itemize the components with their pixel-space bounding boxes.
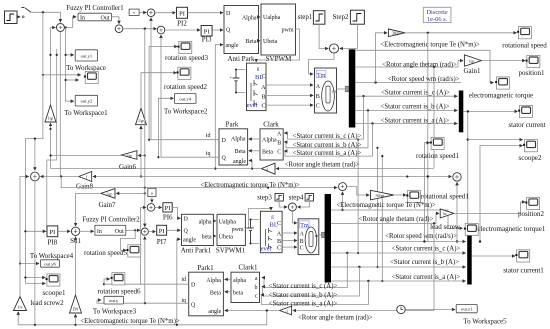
svg-text:Anti Park: Anti Park [227, 55, 255, 63]
wire wm gain to rotational speed scope [405, 32, 517, 34]
gain triangle up DN [70, 295, 82, 313]
scope rotation speed3 [165, 41, 208, 62]
svg-text:D: D [222, 138, 227, 144]
svg-text:rotational speed: rotational speed [502, 42, 547, 50]
svg-text:out.y6: out.y6 [44, 262, 56, 267]
signal is_c2 wire to mux2 [331, 252, 466, 254]
wire from switch trunk to scope input 1 [43, 74, 81, 76]
svg-text:+: + [244, 225, 247, 230]
wire clock to out.z1 [405, 309, 455, 311]
wire cross from top into sum2b top [144, 29, 146, 227]
Step2 block [333, 10, 365, 24]
scope electromagnetic torque [469, 77, 533, 100]
sum Su1 [70, 227, 81, 245]
wire is_a2 to Clark1 c [261, 281, 368, 305]
svg-text:<Stator current is_c (A)>: <Stator current is_c (A)> [269, 283, 338, 290]
svg-text:<Stator current is_c (A)>: <Stator current is_c (A)> [293, 133, 362, 140]
wire right trunk x427.8 down [427, 33, 429, 242]
wire Park id out, up to sumA [151, 18, 219, 140]
wire sumC to sumB [123, 28, 157, 30]
svg-text:PI: PI [159, 228, 165, 235]
svg-text:alpha: alpha [199, 219, 212, 225]
wire motor2 m to connector [319, 234, 322, 236]
svg-text:a: a [255, 276, 258, 282]
svg-text:Beta: Beta [235, 149, 246, 155]
SVPWM1 subsystem [216, 214, 246, 254]
svg-text:rotation speed3: rotation speed3 [165, 54, 208, 62]
wire switch to junction to sum1 [31, 12, 60, 22]
gain lead screw [430, 209, 461, 231]
svg-text:D: D [184, 217, 189, 223]
svg-text:1/w: 1/w [17, 305, 23, 309]
bus connector pad 1 [345, 86, 351, 92]
wire sum2b to PI7 [148, 231, 155, 233]
svg-text:PI2: PI2 [177, 20, 187, 28]
wire sumB to PI3 [165, 29, 200, 31]
To Workspace5 out.z1 [456, 305, 507, 326]
wire PI8 to Su1 [58, 230, 70, 232]
wire into out.y6 [20, 263, 39, 265]
wire Gain6 input from trunk [138, 155, 145, 157]
scope rotation speed6 [98, 273, 141, 296]
step source block [5, 11, 18, 24]
SVPWM subsystem [261, 4, 296, 63]
signal is_a1 wire to mux [355, 123, 457, 125]
inverter 1 (2-level converter) [247, 63, 267, 111]
step3 block [257, 194, 283, 202]
svg-text:rotation speed2: rotation speed2 [164, 83, 207, 91]
svg-text:lsc: lsc [443, 212, 447, 216]
wire is_c to Clark A [284, 96, 363, 139]
svg-text:Anti Park1: Anti Park1 [181, 247, 212, 255]
wire motor m to bus connector [337, 88, 346, 90]
svg-text:position1: position1 [518, 69, 545, 77]
wire gain-up output up to sum1 left input [51, 28, 56, 105]
signal is_b1 wire to mux [355, 109, 457, 111]
svg-text:PI: PI [50, 229, 56, 236]
wire Fuzzy2 out to sum2b [126, 229, 140, 231]
wire is_b to Clark B [284, 110, 368, 147]
sum C [115, 25, 123, 33]
wire AntiPark Beta to SVPWM [259, 40, 260, 42]
svg-text:D: D [226, 11, 231, 17]
wires inverter to motor A B C [266, 84, 313, 86]
svg-text:Alpha: Alpha [206, 278, 221, 284]
constant v box [129, 9, 139, 15]
svg-text:step4: step4 [289, 194, 304, 202]
svg-text:stator current1: stator current1 [503, 266, 544, 274]
wire angle into AntiPark1 [177, 239, 180, 325]
svg-text:A: A [316, 84, 321, 90]
svg-text:<Rotor angle thetam (rad)>: <Rotor angle thetam (rad)> [382, 61, 457, 68]
gain triangle left (angle2) [280, 306, 292, 315]
gain Gain7 (left pointing) [98, 189, 116, 209]
svg-text:<Stator current is_b (A)>: <Stator current is_b (A)> [292, 142, 361, 149]
svg-text:step3: step3 [257, 194, 272, 202]
svg-text:<Electromagnetic torque Te (N*: <Electromagnetic torque Te (N*m)> [80, 318, 180, 325]
bottom rotor angle wire with gain triangle [293, 310, 434, 312]
svg-text:Beta: Beta [210, 290, 221, 296]
Anti Park1 subsystem [181, 214, 214, 254]
svg-text:out.y: out.y [109, 298, 119, 303]
svg-text:beta: beta [233, 290, 243, 296]
wire AntiPark1 beta to SVPWM1 [213, 235, 215, 237]
svg-text:Ualpha: Ualpha [263, 15, 281, 21]
Clark1 subsystem [231, 263, 260, 302]
sum S2a [147, 204, 155, 212]
signal rotor angle1 wire to Gain1 [355, 61, 463, 67]
svg-text:pwm: pwm [282, 28, 294, 34]
svg-text:m: m [315, 233, 319, 238]
svg-text:1/gr: 1/gr [106, 192, 113, 196]
svg-text:30/pi: 30/pi [392, 31, 401, 36]
wire Clark1 beta to Park1 Beta [225, 291, 231, 293]
svg-text:To Workspace3: To Workspace3 [93, 307, 137, 315]
scope scoope1 [43, 274, 66, 297]
gain triangle up (middle) [136, 108, 147, 124]
wire Fuzzy1 Out down to sum C [112, 17, 120, 24]
Park subsystem [206, 121, 248, 166]
svg-text:To Workspace2: To Workspace2 [164, 108, 208, 116]
svg-text:D: D [191, 283, 196, 289]
node junction on sum1 out [65, 26, 67, 28]
node junction angle1 down [433, 66, 435, 68]
wire mux1-out branch down to scoope2 input1 and mux2 [467, 111, 469, 235]
svg-text:angle: angle [226, 43, 239, 49]
PI block PI8 [47, 226, 58, 247]
wire AntiPark1 alpha to SVPWM1 [213, 220, 215, 222]
svg-text:To Workspace1: To Workspace1 [64, 109, 108, 117]
svg-text:Clark: Clark [263, 121, 279, 129]
svg-text:rotational speed1: rotational speed1 [421, 192, 470, 200]
mux 2 [467, 236, 472, 285]
sum A [147, 9, 155, 17]
svg-text:C: C [316, 104, 320, 110]
wire PI6 to AntiPark1 D [172, 207, 180, 218]
svg-text:C: C [300, 246, 304, 252]
svg-text:SVPWM: SVPWM [266, 55, 292, 63]
svg-text:step1: step1 [298, 13, 313, 21]
node junction angle split [251, 168, 253, 170]
svg-text:A: A [261, 84, 266, 91]
svg-text:B: B [300, 239, 304, 245]
scope rotation speed2 [164, 67, 207, 91]
wire is_c2 to Clark1 a [262, 253, 347, 288]
svg-text:In: In [80, 15, 85, 21]
signal speed2 wire [331, 241, 466, 243]
wire SVPWM pwm to inverter g [256, 29, 299, 62]
svg-text:out.y2: out.y2 [81, 99, 93, 104]
node junction angle2 down [433, 222, 435, 224]
signal is_c1 wire to mux [355, 95, 457, 97]
wire Clark1 alpha to Park1 Alpha [225, 278, 231, 280]
svg-text:id: id [206, 133, 211, 139]
svg-text:B: B [316, 94, 320, 100]
wire step4 to sum2T [298, 201, 310, 207]
branch id to rotation speed3 scope [149, 47, 177, 140]
svg-text:DN: DN [73, 308, 79, 312]
svg-text:out.y4: out.y4 [179, 97, 191, 102]
wire tri1 up to sum4 [20, 177, 29, 297]
wire tri2 up to Su1 bottom [75, 237, 77, 295]
wire sum2T out to motor2 Tm [292, 211, 296, 223]
svg-text:Q: Q [222, 156, 227, 162]
svg-text:lead screw2: lead screw2 [30, 299, 64, 307]
svg-text:-1: -1 [266, 168, 269, 172]
wire sum4 bottom down to bottom line [34, 182, 36, 325]
branch iq2 to out.y [97, 300, 145, 303]
svg-text:B: B [277, 141, 281, 147]
scope rotation speed1 [416, 137, 459, 160]
scope position2 [518, 197, 545, 218]
wire fuzzy2 out branch to rotation speed5 [120, 230, 135, 250]
svg-text:<Rotor angle thetam (rad)>: <Rotor angle thetam (rad)> [359, 216, 434, 223]
wire Park1 id out, up to sum2a [141, 207, 189, 284]
Fuzzy PI Controller1 subsystem [66, 5, 123, 21]
wire sumA to PI2 [155, 12, 176, 14]
svg-text:PI: PI [165, 205, 171, 212]
constant 0 box [148, 188, 156, 196]
svg-text:stator current: stator current [508, 121, 545, 129]
mux 1 [459, 91, 464, 133]
svg-text:<Rotor angle thetam (rad)>: <Rotor angle thetam (rad)> [285, 162, 360, 169]
svg-text:Park: Park [226, 121, 239, 129]
bus selector bar 1 [349, 49, 356, 127]
svg-text:PI7: PI7 [157, 238, 167, 246]
signal is_b2 wire to mux2 [331, 266, 466, 268]
svg-text:electromagnetic torque1: electromagnetic torque1 [478, 225, 546, 233]
svg-text:Fuzzy PI Controller2: Fuzzy PI Controller2 [82, 216, 140, 223]
scope rotational speed [502, 27, 547, 50]
svg-text:alpha: alpha [233, 278, 246, 284]
svg-text:<Stator current is_a (A)>: <Stator current is_a (A)> [293, 150, 362, 157]
branch id2 to rotation speed6 scope [104, 279, 110, 284]
svg-text:Beta: Beta [246, 39, 257, 45]
wire angle gain to Park angle [249, 161, 261, 169]
svg-text:To Workspace5: To Workspace5 [463, 317, 507, 325]
wire sum out to motor1 Tm [309, 53, 335, 74]
svg-text:Q: Q [184, 228, 189, 234]
svg-text:1: 1 [86, 176, 88, 180]
svg-text:1/gr: 1/gr [138, 119, 145, 123]
svg-text:Ualpha: Ualpha [219, 219, 237, 225]
svg-text:angle: angle [183, 238, 196, 244]
wire lead screw gain to position2 [454, 202, 525, 213]
svg-text:1/gr: 1/gr [469, 60, 476, 64]
svg-text:<Stator current is_b (A)>: <Stator current is_b (A)> [268, 292, 337, 299]
gain wm2 (30/pi) [371, 190, 394, 200]
sum torque1 (step1+step2) [329, 44, 338, 53]
svg-text:Gain1: Gain1 [463, 67, 481, 75]
To Workspace3 out.y [93, 296, 137, 315]
wire is_b2 to Clark1 b [262, 267, 359, 296]
svg-text:C: C [262, 74, 266, 80]
svg-text:PI: PI [179, 11, 185, 18]
svg-text:To Workspace4: To Workspace4 [30, 252, 74, 260]
svg-text:C: C [261, 103, 265, 110]
scope electromagnetic torque1 [464, 223, 546, 235]
sum S4 left [31, 172, 40, 181]
gain Gain1 [463, 55, 481, 75]
svg-text:position2: position2 [518, 210, 545, 218]
wire sum6 bottom from torque2 line [342, 192, 344, 210]
wire Park iq out, up to sumB [161, 35, 219, 157]
wire Clark Alpha to Park Alpha [249, 138, 260, 140]
node junctions for down branches [362, 95, 364, 97]
wire trunk x56.7 down to PI8 [46, 49, 57, 231]
svg-text:lead screw: lead screw [430, 223, 461, 231]
wire trunk from sum1 bottom down [59, 32, 61, 177]
svg-text:out.y1: out.y1 [81, 54, 93, 59]
bottom angle feedback line [18, 312, 267, 325]
wire long sync line y176.5 [93, 176, 428, 178]
wire bundle descending to lower half [358, 140, 382, 282]
wire mid triangle to rotation speed2 scope [141, 73, 176, 109]
wire left vertical to PI8 and scoope1 [25, 139, 45, 284]
svg-text:Park1: Park1 [197, 264, 214, 272]
node junction at 427.8 [427, 32, 429, 34]
signal angle2 wire to lead screw gain [331, 213, 439, 223]
branch speed2 up to rotation speed1 scope [424, 143, 429, 242]
svg-text:<Rotor angle thetam (rad)>: <Rotor angle thetam (rad)> [298, 314, 373, 321]
wire Gain6 out to left riser [51, 155, 122, 157]
svg-text:Fuzzy PI Controller1: Fuzzy PI Controller1 [66, 5, 123, 12]
wire left trunk from switch junction down to sum4 [35, 12, 43, 170]
wire branch to scope input 2 [66, 79, 79, 81]
wire wm2 to rotational speed1 scope [394, 194, 406, 196]
svg-text:30/pi: 30/pi [376, 193, 385, 198]
svg-text:Gain8: Gain8 [76, 182, 94, 190]
svg-text:Ubeta: Ubeta [219, 235, 234, 241]
svg-text:In: In [97, 229, 102, 235]
sum S2b [141, 228, 148, 235]
svg-text:Tm: Tm [317, 73, 326, 79]
svg-text:rotation speed1: rotation speed1 [416, 152, 459, 160]
node junctions down branches to Clark1 [346, 252, 348, 254]
branch iq to out.y4 [158, 98, 173, 157]
svg-text:Gain6: Gain6 [119, 163, 137, 171]
svg-text:1e-06 s.: 1e-06 s. [427, 16, 448, 23]
svg-text:-1: -1 [285, 309, 288, 313]
svg-text:electromagnetic torque: electromagnetic torque [469, 92, 533, 100]
svg-text:<Stator current is_a (A)>: <Stator current is_a (A)> [381, 117, 450, 124]
signal is_a2 wire to mux2 [331, 280, 466, 282]
To Workspace4 out.y6 [30, 252, 74, 267]
wire angle gain2 to Park1 angle [225, 310, 280, 312]
wire mux2 to stator current1 scope [472, 255, 515, 257]
svg-text:Q: Q [226, 28, 231, 34]
svg-text:C: C [277, 150, 281, 156]
svg-text:id: id [181, 277, 186, 283]
wire Gain7 input from trunk [116, 192, 145, 194]
bus selector bar 2 [325, 194, 331, 283]
svg-text:1/gr: 1/gr [48, 117, 55, 121]
svg-text:PI6: PI6 [163, 214, 173, 222]
bus connector pad 2 [322, 232, 328, 237]
svg-text:<Electromagnetic torque Te (N*: <Electromagnetic torque Te (N*m)> [380, 42, 480, 49]
svg-text:m: m [332, 89, 336, 94]
wire obox to sum2a [151, 197, 153, 203]
svg-text:To Workspace: To Workspace [66, 64, 106, 72]
gain Gain6 (left pointing) [119, 151, 137, 171]
svg-text:PI3: PI3 [202, 36, 212, 44]
svg-text:<Stator current is_c (A)>: <Stator current is_c (A)> [392, 245, 461, 252]
scope position1 [518, 55, 545, 77]
To Workspace1 out.y2 [64, 95, 108, 117]
node junction speed1 [374, 81, 376, 83]
wire sum2a to PI6 [155, 206, 162, 208]
wire branch to out.y1 [66, 28, 74, 102]
wire angle1 down to mid rotor-angle line [433, 67, 435, 168]
svg-text:<Electromagnetic torque Te (N*: <Electromagnetic torque Te (N*m)> [336, 202, 436, 209]
svg-text:Tm: Tm [300, 223, 309, 229]
svg-text:b: b [255, 285, 258, 291]
svg-text:Beta: Beta [262, 149, 273, 155]
rotation speed5 scope and label [84, 245, 141, 257]
svg-text:C: C [277, 221, 281, 227]
svg-text:Discrete: Discrete [426, 9, 447, 16]
wire angle to AntiPark angle [215, 45, 252, 169]
sum B [157, 26, 165, 34]
wire step2 to sum right [340, 24, 358, 48]
mid rotor angle wire with gain triangle [276, 168, 434, 170]
PMSM motor 2 [298, 219, 319, 255]
wire is_a to Clark C [284, 124, 372, 157]
wire Park1 iq out, up to sum2b bottom [145, 237, 189, 304]
scope rotational speed1 [406, 190, 469, 202]
svg-text:<Stator current is_c (A)>: <Stator current is_c (A)> [381, 89, 450, 96]
wire mid triangle bottom input [140, 126, 142, 177]
manual switch [17, 8, 31, 18]
wire sum5 bottom from speed2 [456, 182, 458, 241]
inverter 2 (2-level converter) [260, 211, 282, 252]
wire vbox to sumA [139, 12, 146, 14]
node junction cross down [144, 28, 146, 30]
sum S5 right [453, 173, 461, 181]
wire PI7 to AntiPark1 Q [167, 229, 181, 231]
DC voltage source 2 [244, 219, 259, 245]
svg-text:beta: beta [202, 235, 212, 241]
svg-text:Q: Q [191, 302, 196, 308]
signal torque1 wire to em torque scope [355, 50, 493, 82]
PI block PI3 [201, 26, 212, 44]
gain Gain8 (left pointing) [76, 172, 94, 191]
svg-text:<Rotor speed wm (rad/s)>: <Rotor speed wm (rad/s)> [388, 76, 460, 83]
svg-text:<Stator current is_a (A)>: <Stator current is_a (A)> [392, 274, 461, 281]
svg-text:scoope2: scoope2 [519, 154, 542, 162]
svg-text:+: + [230, 75, 233, 80]
wires inverter2 to motor2 A B C [282, 232, 297, 234]
wire PI3 to AntiPark Q [212, 29, 223, 31]
svg-text:angle: angle [233, 159, 246, 165]
svg-text:<Rotor speed wm (rad/s)>: <Rotor speed wm (rad/s)> [385, 233, 457, 240]
DC voltage source 1 [230, 69, 246, 94]
svg-text:<Stator current is_a (A)>: <Stator current is_a (A)> [269, 301, 338, 308]
step4 block [289, 194, 314, 202]
svg-text:Alpha: Alpha [242, 16, 257, 22]
svg-text:A: A [277, 231, 282, 238]
svg-text:<Stator current is_b (A)>: <Stator current is_b (A)> [380, 104, 449, 111]
Fuzzy PI Controller2 subsystem [82, 216, 140, 235]
scope stator current1 [503, 250, 544, 275]
svg-text:Alpha: Alpha [262, 138, 277, 144]
svg-text:angle: angle [208, 309, 221, 315]
signal torque2 wire to em torque1 scope [331, 210, 462, 228]
scope scoope2 [519, 140, 542, 163]
wire tri2 bottom input [75, 314, 77, 324]
sum S1 [56, 24, 64, 32]
scope 2-input (unnamed) [84, 71, 98, 83]
